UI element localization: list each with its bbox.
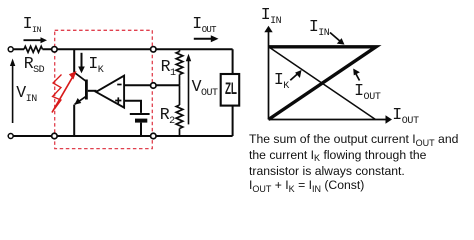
graph annot arrow IK [290,73,298,80]
arrow VOUT [188,60,190,124]
label ZL [225,81,237,98]
IC dashed box [55,30,153,148]
graph label IOUT axis [392,107,419,124]
arrow VIN [12,65,14,123]
resistor R1 [176,49,183,85]
reference battery [130,113,150,115]
arrow IIN [24,39,42,41]
op-amp plus [115,97,121,103]
arrow IOUT circuit [194,38,213,40]
node bottom left pin [52,133,58,139]
node feedback pin [151,83,157,89]
node top right pin [151,47,157,53]
resistor R2 [176,85,183,136]
label R2 [160,107,175,124]
label R1 [161,59,176,76]
label VOUT [192,79,218,96]
wire base [88,90,97,92]
load ZL [221,74,240,106]
graph line IK (thin diagonal) [269,47,376,120]
label RSD [24,56,44,73]
terminal input top [8,47,13,52]
resistor RSD [24,46,43,52]
graph label IIN line [309,19,329,36]
label IOUT circuit [192,16,216,33]
caption paragraph [249,132,469,194]
wire inverting input to feedback node [124,84,179,86]
wire bottom rail [13,106,232,136]
arrow IK [81,53,83,68]
wire top rail [13,49,232,74]
op-amp minus [117,84,121,86]
wire emitter [73,105,75,136]
graph y-axis [268,31,270,120]
graph x-axis [269,119,387,121]
graph label IK line [274,72,289,89]
node top left pin [52,47,58,53]
transistor Q1 [74,72,86,105]
label VIN [16,85,36,102]
node bottom right pin [151,133,157,139]
op-amp U1 [96,76,124,108]
wire non-inverting input [124,101,141,113]
label IK [88,56,103,73]
variable squiggle arrow (red) [52,71,77,113]
graph annot arrow IOUT [356,74,360,81]
graph line IIN constant (thick horizontal) [269,47,377,120]
wire battery to ground rail [140,123,142,136]
label IIN [23,16,41,33]
graph label IOUT line [354,83,381,100]
graph annot arrow IIN [330,33,341,43]
wire collector [73,49,75,72]
graph label IIN axis [261,7,281,24]
terminal input bottom [8,134,13,139]
